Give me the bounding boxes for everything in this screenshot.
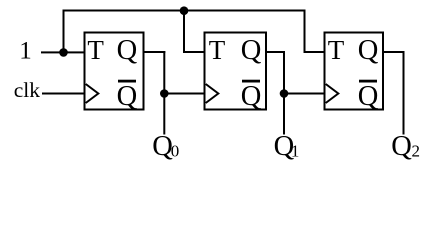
clock triangle of U3: [326, 84, 339, 103]
flip-flop U3 box: [325, 33, 384, 110]
svg-text:2: 2: [412, 141, 421, 160]
svg-text:Q: Q: [117, 35, 138, 66]
clock triangle of U2: [206, 84, 219, 103]
wire node D to clock pin of U3: [283, 93, 326, 95]
svg-text:T: T: [87, 35, 104, 65]
wire Q of U3 vertical down to Q2 label: [403, 51, 405, 135]
svg-text:Q: Q: [358, 35, 379, 66]
svg-text:Q: Q: [241, 35, 262, 66]
wire clk to clock pin of U1: [42, 93, 86, 95]
pin label Q-bar of U2: [241, 80, 262, 112]
flip-flop U1 box: [85, 33, 144, 110]
wire stub node D down to Q1 label: [283, 94, 285, 135]
node Q0 output label: [152, 131, 179, 162]
svg-text:1: 1: [291, 141, 300, 160]
wire Q of U2 horizontal: [267, 51, 286, 53]
wire into T pin of U3: [304, 51, 326, 53]
wire riser node A to top rail: [63, 10, 65, 54]
node B junction dot on top rail: [180, 6, 189, 15]
clock triangle of U1: [86, 84, 99, 103]
svg-text:Q: Q: [241, 81, 262, 112]
svg-text:Q: Q: [117, 81, 138, 112]
node Q2 output label: [391, 131, 420, 162]
wire drop from node B to T input of U2: [183, 11, 185, 54]
svg-text:Q: Q: [391, 131, 412, 162]
svg-text:T: T: [209, 35, 226, 65]
node A junction dot at 1/T rail: [59, 48, 68, 57]
pin label Q-bar of U1: [117, 80, 138, 112]
wire top rail: [63, 10, 306, 12]
wire drop from top rail right end to T input of U3: [304, 11, 306, 54]
wire from 1 to T input of U1: [41, 51, 86, 53]
svg-text:clk: clk: [14, 78, 41, 102]
wire Q of U1 vertical down to clock rail: [163, 51, 165, 95]
pin label Q-bar of U3: [358, 80, 379, 112]
svg-text:Q: Q: [358, 81, 379, 112]
wire into T pin of U2: [183, 51, 206, 53]
node D junction dot (Q1 tap): [280, 89, 289, 98]
svg-text:1: 1: [19, 38, 32, 65]
wire stub node C down to Q0 label: [163, 94, 165, 135]
wire node C to clock pin of U2: [163, 93, 205, 95]
flip-flop U2 box: [205, 33, 267, 110]
node C junction dot (Q0 tap): [160, 89, 169, 98]
node Q1 output label: [274, 131, 300, 162]
svg-text:0: 0: [171, 141, 180, 160]
wire Q of U1 horizontal: [144, 51, 165, 53]
wire Q of U3 horizontal: [384, 51, 405, 53]
wire Q of U2 vertical down to clock rail: [283, 51, 285, 95]
svg-text:T: T: [328, 35, 345, 65]
